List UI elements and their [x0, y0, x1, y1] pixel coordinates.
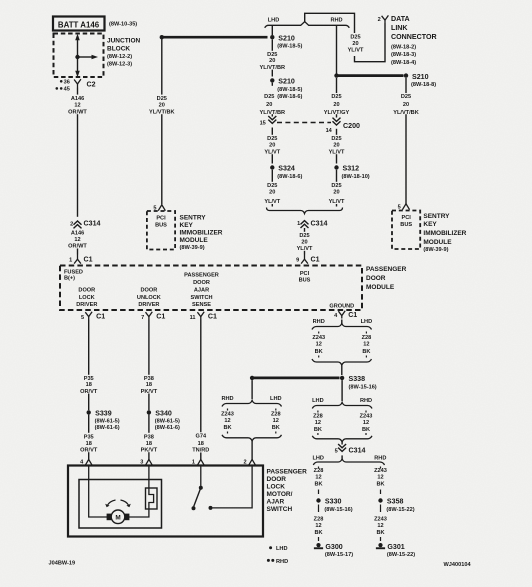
- svg-text:YL/VT/GY: YL/VT/GY: [324, 110, 350, 116]
- passenger door module (dashed box): [60, 266, 362, 311]
- brace B lower: [222, 435, 282, 441]
- svg-text:LHD: LHD: [270, 396, 282, 402]
- svg-text:RHD: RHD: [360, 398, 372, 404]
- svg-text:(8W-18-6): (8W-18-6): [277, 94, 302, 100]
- merge brace LHD/RHD to C314: [267, 208, 343, 214]
- svg-text:(8W-18-5): (8W-18-5): [277, 44, 302, 50]
- svg-text:Z243: Z243: [360, 413, 373, 419]
- svg-text:G301: G301: [387, 543, 404, 551]
- svg-text:PCI: PCI: [402, 215, 412, 221]
- wire below S338: [341, 380, 343, 401]
- svg-text:SWITCH: SWITCH: [190, 295, 212, 301]
- svg-text:D25: D25: [331, 136, 341, 142]
- svg-text:20: 20: [301, 240, 307, 246]
- svg-text:DRIVER: DRIVER: [76, 302, 97, 308]
- splice S312: [334, 165, 338, 169]
- wire G74 TN/RD: [200, 320, 202, 433]
- svg-text:BUS: BUS: [400, 222, 412, 228]
- wire RHD drop: [336, 25, 338, 73]
- svg-text:LOCK: LOCK: [79, 295, 95, 301]
- wire stub above G300: [318, 537, 320, 541]
- wire to motor pin 2: [251, 441, 253, 460]
- connector C2: [74, 79, 81, 84]
- bus wire to S210: [162, 36, 268, 39]
- tick B L2: [227, 432, 229, 434]
- wire to other circuits: [78, 56, 93, 58]
- splice S339: [87, 410, 91, 414]
- svg-text:DRIVER: DRIVER: [138, 302, 159, 308]
- svg-text:Z243: Z243: [221, 411, 234, 417]
- svg-text:P35: P35: [84, 376, 94, 382]
- motor rotation arrows: [107, 500, 115, 506]
- svg-text:LOCK: LOCK: [267, 483, 286, 490]
- wire ground C1 pin 4: [341, 320, 343, 324]
- svg-text:RHD: RHD: [330, 17, 342, 23]
- svg-text:2: 2: [70, 221, 73, 227]
- tick C L2: [317, 433, 319, 435]
- svg-text:(8W-39-9): (8W-39-9): [180, 245, 205, 251]
- splice S210 (2): [270, 78, 274, 82]
- svg-text:14: 14: [326, 128, 333, 134]
- svg-text:(8W-18-10): (8W-18-10): [342, 174, 370, 180]
- svg-text:RHD: RHD: [374, 456, 386, 462]
- svg-text:C314: C314: [349, 447, 366, 455]
- svg-text:MODULE: MODULE: [366, 284, 395, 291]
- svg-text:20: 20: [333, 143, 339, 149]
- svg-text:18: 18: [86, 441, 92, 447]
- svg-text:DOOR: DOOR: [193, 280, 210, 286]
- svg-text:SENSE: SENSE: [192, 302, 211, 308]
- sentry key immobilizer module right (dashed): [392, 211, 420, 250]
- svg-text:PASSENGER: PASSENGER: [184, 272, 219, 278]
- svg-text:12: 12: [315, 474, 321, 480]
- svg-text:YL/VT: YL/VT: [264, 199, 280, 205]
- PTC resistor box: [146, 488, 158, 509]
- svg-text:2: 2: [378, 17, 381, 23]
- svg-text:C1: C1: [96, 313, 105, 321]
- svg-text:C1: C1: [84, 255, 93, 263]
- svg-text:5: 5: [81, 315, 84, 321]
- passenger door lock motor box: [68, 466, 263, 537]
- svg-text:RHD: RHD: [276, 559, 288, 565]
- svg-text:MOTOR/: MOTOR/: [267, 491, 293, 498]
- svg-text:LHD: LHD: [268, 17, 280, 23]
- svg-text:SENTRY: SENTRY: [423, 213, 450, 220]
- splice S358: [378, 498, 382, 502]
- svg-text:A146: A146: [71, 96, 84, 102]
- svg-text:DOOR: DOOR: [366, 275, 386, 282]
- svg-text:Z28: Z28: [314, 468, 324, 474]
- battery feed box BATT A146: [53, 17, 105, 31]
- tick Z28 upper: [365, 332, 367, 334]
- svg-text:AJAR: AJAR: [267, 498, 285, 505]
- svg-text:(8W-15-22): (8W-15-22): [387, 552, 415, 558]
- svg-text:(8W-61-6): (8W-61-6): [95, 425, 120, 431]
- svg-text:MODULE: MODULE: [423, 239, 452, 246]
- tick B R2: [275, 432, 277, 434]
- svg-text:SWITCH: SWITCH: [267, 506, 293, 513]
- svg-text:D25: D25: [267, 183, 277, 189]
- svg-text:18: 18: [146, 382, 152, 388]
- svg-text:20: 20: [159, 103, 165, 109]
- svg-text:18: 18: [86, 382, 92, 388]
- wire G74 to pin 1: [200, 453, 202, 460]
- connector C200 dashed line: [277, 122, 331, 124]
- svg-text:D25: D25: [267, 136, 277, 142]
- svg-text:S338: S338: [349, 375, 366, 383]
- svg-text:YL/VT: YL/VT: [264, 149, 280, 155]
- svg-text:12: 12: [377, 523, 383, 529]
- brace D: [313, 459, 384, 465]
- wire P35 to pin 4: [88, 452, 90, 460]
- svg-text:5: 5: [335, 448, 338, 454]
- svg-text:S312: S312: [343, 165, 360, 173]
- svg-text:Z28: Z28: [313, 413, 323, 419]
- ground G300: [316, 543, 320, 547]
- wire A146 OR/WT lower: [77, 249, 79, 255]
- svg-text:BUS: BUS: [155, 222, 167, 228]
- svg-text:(8W-61-5): (8W-61-5): [155, 419, 180, 425]
- svg-text:S324: S324: [278, 165, 295, 173]
- svg-text:YL/VT/BK: YL/VT/BK: [149, 109, 174, 115]
- svg-text:BATT A146: BATT A146: [58, 20, 100, 29]
- svg-text:C314: C314: [311, 219, 328, 227]
- svg-text:(8W-18-8): (8W-18-8): [411, 82, 436, 88]
- svg-text:KEY: KEY: [180, 222, 194, 229]
- legend RHD: [267, 559, 270, 562]
- svg-text:(8W-39-9): (8W-39-9): [423, 247, 448, 253]
- wire D25 YL/VT/BR (1): [271, 40, 273, 51]
- svg-text:(8W-18-4): (8W-18-4): [391, 60, 416, 66]
- svg-text:IMMOBILIZER: IMMOBILIZER: [180, 230, 223, 237]
- svg-text:C200: C200: [343, 122, 360, 130]
- junction node at junction block feed: [160, 35, 164, 39]
- wire D25 YL/VT/BR (2): [271, 83, 273, 86]
- svg-text:(8W-15-16): (8W-15-16): [324, 507, 352, 513]
- svg-text:DATA: DATA: [391, 15, 410, 23]
- wire pin4 to motor: [89, 466, 107, 517]
- svg-text:20: 20: [269, 190, 275, 196]
- arrow up to BATT: [75, 34, 80, 41]
- motor assembly inner box: [79, 480, 162, 529]
- svg-text:9: 9: [296, 257, 299, 263]
- svg-text:BK: BK: [362, 349, 370, 355]
- data link connector wire D25 YL/VT: [305, 13, 355, 33]
- svg-text:D25: D25: [331, 183, 341, 189]
- junction node left branch: [250, 376, 254, 380]
- wire stub below S330: [318, 505, 320, 513]
- svg-text:J04BW-19: J04BW-19: [49, 560, 76, 566]
- svg-text:YL/VT/BR: YL/VT/BR: [260, 65, 285, 71]
- svg-text:BK: BK: [314, 427, 322, 433]
- svg-text:YL/VT/BK: YL/VT/BK: [393, 110, 418, 116]
- svg-text:S330: S330: [325, 498, 342, 506]
- svg-text:Z28: Z28: [314, 516, 324, 522]
- svg-text:LHD: LHD: [361, 319, 373, 325]
- svg-text:B(+): B(+): [64, 275, 75, 281]
- svg-text:(8W-18-2): (8W-18-2): [391, 45, 416, 51]
- svg-text:Z28: Z28: [271, 411, 281, 417]
- svg-text:(8W-15-17): (8W-15-17): [325, 552, 353, 558]
- svg-text:P38: P38: [144, 434, 154, 440]
- svg-text:P35: P35: [84, 434, 94, 440]
- wire stub below S358: [380, 505, 382, 513]
- svg-text:12: 12: [316, 342, 322, 348]
- svg-text:20: 20: [333, 102, 339, 108]
- wire D25 YL/VT/BK to SKIM: [161, 39, 163, 95]
- svg-text:GROUND: GROUND: [329, 303, 354, 309]
- svg-text:C314: C314: [84, 220, 101, 228]
- svg-text:SENTRY: SENTRY: [180, 215, 207, 222]
- svg-text:(8W-15-22): (8W-15-22): [386, 507, 414, 513]
- svg-text:WJ400104: WJ400104: [444, 562, 472, 568]
- svg-text:(8W-18-6): (8W-18-6): [277, 174, 302, 180]
- svg-text:MODULE: MODULE: [180, 237, 209, 244]
- svg-text:12: 12: [74, 237, 80, 243]
- splice S210 (1): [270, 35, 274, 39]
- svg-text:S210: S210: [412, 73, 429, 81]
- wire P38 to pin 3: [148, 452, 150, 460]
- svg-text:(8W-18-3): (8W-18-3): [391, 52, 416, 58]
- svg-text:D25: D25: [157, 96, 167, 102]
- svg-text:11: 11: [190, 315, 196, 321]
- svg-text:JUNCTION: JUNCTION: [107, 38, 141, 45]
- svg-text:KEY: KEY: [423, 221, 437, 228]
- svg-text:D25: D25: [299, 233, 309, 239]
- svg-text:(8W-12-3): (8W-12-3): [107, 62, 132, 68]
- svg-text:18: 18: [198, 441, 204, 447]
- svg-text:12: 12: [363, 420, 369, 426]
- splice S340: [147, 410, 151, 414]
- svg-text:Z243: Z243: [312, 335, 325, 341]
- svg-text:G300: G300: [325, 543, 342, 551]
- wire pin3 through PTC to motor: [129, 466, 154, 517]
- svg-text:Z243: Z243: [374, 516, 387, 522]
- svg-text:BUS: BUS: [299, 277, 311, 283]
- svg-text:BK: BK: [315, 349, 323, 355]
- wire branch to pin 2: [251, 380, 253, 399]
- svg-text:1: 1: [69, 257, 72, 263]
- wire LHD drop: [271, 25, 273, 35]
- tick C R: [365, 411, 367, 413]
- wire stub above S358: [380, 490, 382, 495]
- svg-text:2: 2: [243, 459, 246, 465]
- svg-text:36: 36: [64, 80, 70, 86]
- wire D25 YL/VT/GY: [336, 78, 338, 93]
- svg-text:DOOR: DOOR: [267, 476, 287, 483]
- splice S338: [340, 376, 344, 380]
- svg-text:20: 20: [269, 58, 275, 64]
- bus wire S338: [252, 377, 339, 380]
- svg-text:RHD: RHD: [221, 396, 233, 402]
- splice S210 (3): [404, 73, 408, 77]
- svg-text:YL/VT: YL/VT: [329, 199, 345, 205]
- wire D25 YL/VT (LHD 1): [271, 128, 273, 135]
- brace C upper: [312, 402, 372, 408]
- wire P38 PK/VT: [148, 320, 150, 375]
- wire inside junction block: [77, 36, 79, 71]
- svg-text:12: 12: [315, 420, 321, 426]
- brace C lower: [312, 436, 372, 442]
- svg-text:AJAR: AJAR: [194, 287, 209, 293]
- svg-text:YL/VT: YL/VT: [297, 246, 313, 252]
- svg-text:D25: D25: [264, 94, 274, 100]
- svg-text:1: 1: [297, 221, 300, 227]
- junction node RHD: [334, 73, 338, 77]
- svg-text:D25: D25: [331, 94, 341, 100]
- brace B upper: [222, 400, 282, 406]
- bus wire to S210 (8W-18-8): [337, 74, 404, 77]
- wire A146 OR/WT: [77, 88, 79, 95]
- svg-text:12: 12: [377, 474, 383, 480]
- svg-text:S210: S210: [278, 78, 295, 86]
- svg-text:BK: BK: [272, 425, 280, 431]
- wire pin2 to switch: [213, 466, 253, 508]
- svg-text:C1: C1: [156, 313, 165, 321]
- wire stub to S338: [341, 365, 343, 375]
- svg-text:DOOR: DOOR: [141, 288, 158, 294]
- brace under C1 pin4: [312, 323, 372, 329]
- svg-text:C1: C1: [311, 255, 320, 263]
- svg-text:LINK: LINK: [391, 24, 408, 32]
- wire P35 OR/VT (2): [88, 394, 90, 411]
- svg-text:C2: C2: [86, 81, 95, 89]
- svg-text:12: 12: [224, 418, 230, 424]
- svg-text:(8W-61-6): (8W-61-6): [155, 425, 180, 431]
- svg-text:YL/VT/BR: YL/VT/BR: [260, 110, 285, 116]
- wire P35 OR/VT: [88, 320, 90, 375]
- arrow right: [92, 55, 99, 60]
- svg-text:15: 15: [260, 120, 266, 126]
- tick Z243 upper 2: [318, 356, 320, 358]
- svg-text:(8W-12-2): (8W-12-2): [107, 54, 132, 60]
- svg-text:BK: BK: [376, 530, 384, 536]
- svg-text:45: 45: [64, 87, 70, 93]
- svg-text:M: M: [115, 514, 120, 521]
- svg-text:CONNECTOR: CONNECTOR: [391, 33, 437, 41]
- svg-text:BK: BK: [314, 530, 322, 536]
- svg-text:LHD: LHD: [312, 398, 324, 404]
- svg-text:7: 7: [141, 315, 144, 321]
- svg-text:A146: A146: [71, 230, 84, 236]
- svg-text:5: 5: [398, 204, 401, 210]
- wire stub to C314: [341, 442, 343, 445]
- svg-text:PCI: PCI: [156, 216, 166, 222]
- wire D25 YL/VT (RHD 2): [336, 170, 338, 182]
- svg-text:OR/WT: OR/WT: [68, 244, 87, 250]
- svg-text:G74: G74: [196, 434, 207, 440]
- svg-text:BK: BK: [376, 482, 384, 488]
- wire D25 YL/VT/BK right: [405, 78, 407, 93]
- svg-text:C1: C1: [208, 313, 217, 321]
- svg-text:Z28: Z28: [362, 335, 372, 341]
- svg-text:BK: BK: [314, 482, 322, 488]
- junction block (dashed): [54, 34, 104, 78]
- svg-text:S339: S339: [95, 409, 112, 417]
- splice S324: [270, 165, 274, 169]
- ground G301: [378, 543, 382, 547]
- wire D25 YL/VT to PDM: [304, 228, 306, 232]
- splice S330: [316, 498, 320, 502]
- svg-text:P38: P38: [144, 376, 154, 382]
- legend LHD: [269, 546, 272, 549]
- wire D25 YL/VT (LHD 2): [271, 170, 273, 182]
- svg-text:Z243: Z243: [374, 468, 387, 474]
- svg-text:(8W-18-5): (8W-18-5): [277, 87, 302, 93]
- svg-text:3: 3: [140, 459, 143, 465]
- wire D25 YL/VT (RHD 1): [336, 129, 338, 135]
- wire pin1 to switch: [200, 466, 202, 487]
- svg-text:BK: BK: [223, 425, 231, 431]
- LHD/RHD bracket underline: [265, 22, 350, 28]
- svg-text:D25: D25: [350, 34, 360, 40]
- svg-text:20: 20: [403, 102, 409, 108]
- junction block node: [75, 55, 79, 59]
- svg-text:20: 20: [269, 143, 275, 149]
- sentry key immobilizer module left (dashed): [147, 211, 175, 250]
- brace above S338: [312, 359, 372, 365]
- svg-text:YL/VT: YL/VT: [348, 48, 364, 54]
- wire stub above S330: [318, 490, 320, 495]
- svg-text:1: 1: [192, 459, 195, 465]
- wire stub below C314: [341, 455, 343, 458]
- svg-text:BLOCK: BLOCK: [107, 46, 130, 53]
- svg-text:(8W-61-5): (8W-61-5): [95, 419, 120, 425]
- svg-text:12: 12: [74, 103, 80, 109]
- tick Z243 upper: [318, 332, 320, 334]
- svg-text:S210: S210: [278, 35, 295, 43]
- lock motor M: [111, 510, 125, 524]
- svg-text:(8W-15-16): (8W-15-16): [349, 385, 377, 391]
- tick B R: [275, 409, 277, 411]
- svg-text:OR/WT: OR/WT: [68, 109, 87, 115]
- svg-text:YL/VT: YL/VT: [329, 149, 345, 155]
- ajar switch: [199, 486, 203, 490]
- svg-text:UNLOCK: UNLOCK: [137, 295, 161, 301]
- svg-text:20: 20: [333, 190, 339, 196]
- svg-text:PASSENGER: PASSENGER: [267, 468, 308, 475]
- svg-text:IMMOBILIZER: IMMOBILIZER: [423, 230, 466, 237]
- svg-text:20: 20: [352, 41, 358, 47]
- tick C L: [317, 411, 319, 413]
- tick D R: [380, 467, 382, 469]
- svg-text:C1: C1: [348, 311, 357, 319]
- svg-text:PASSENGER: PASSENGER: [366, 266, 407, 273]
- svg-text:12: 12: [363, 342, 369, 348]
- svg-text:LHD: LHD: [312, 456, 324, 462]
- arrow down at C2: [75, 71, 80, 78]
- svg-text:(8W-10-35): (8W-10-35): [109, 21, 137, 27]
- svg-text:BK: BK: [362, 427, 370, 433]
- wire P38 PK/VT (2): [148, 394, 150, 411]
- tick D L: [318, 467, 320, 469]
- tick Z28 upper 2: [365, 356, 367, 358]
- svg-text:DOOR: DOOR: [78, 288, 95, 294]
- svg-text:RHD: RHD: [313, 319, 325, 325]
- svg-text:18: 18: [146, 441, 152, 447]
- svg-text:12: 12: [315, 523, 321, 529]
- wire stub above G301: [380, 537, 382, 541]
- svg-text:LHD: LHD: [276, 546, 288, 552]
- svg-text:12: 12: [273, 418, 279, 424]
- svg-text:S358: S358: [387, 498, 404, 506]
- tick C R2: [365, 433, 367, 435]
- tick B L: [227, 409, 229, 411]
- svg-text:D25: D25: [401, 94, 411, 100]
- svg-text:PCI: PCI: [300, 271, 310, 277]
- svg-text:20: 20: [266, 102, 272, 108]
- svg-text:S340: S340: [155, 409, 172, 417]
